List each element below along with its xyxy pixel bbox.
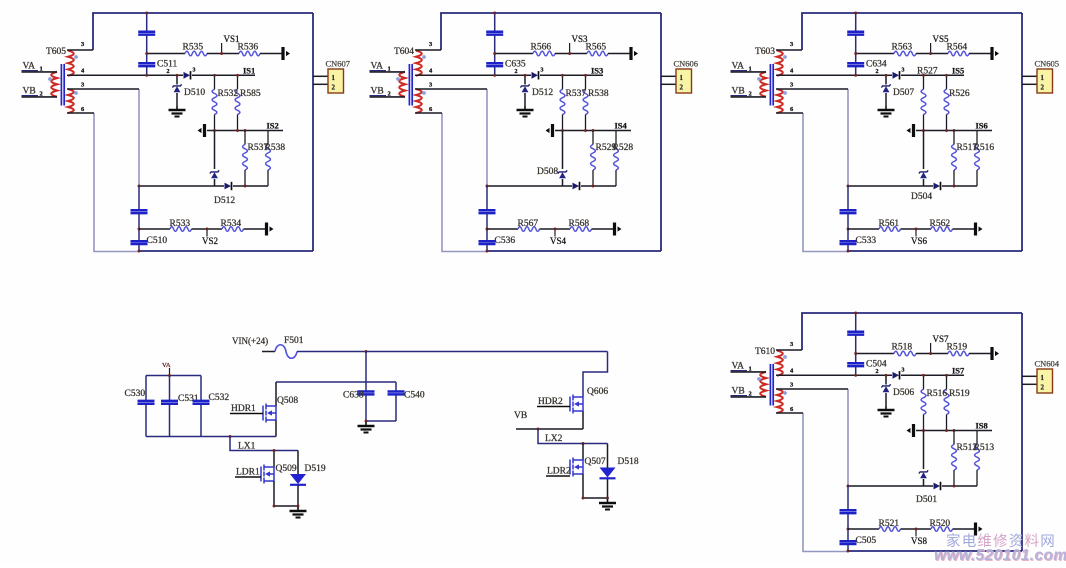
svg-text:3: 3	[902, 368, 905, 374]
wire LX1 step	[230, 437, 298, 451]
wire LX1 bus	[146, 436, 276, 438]
junction dots	[493, 12, 496, 15]
wire	[923, 179, 925, 186]
svg-text:C536: C536	[495, 236, 516, 246]
wire bottom cap column	[847, 186, 849, 210]
svg-text:D504: D504	[911, 192, 932, 202]
wire Q509 source	[273, 481, 275, 506]
wire zener branch	[923, 431, 925, 470]
wire VIN to fuse	[262, 351, 275, 353]
svg-text:2: 2	[1041, 384, 1045, 392]
svg-text:Q507: Q507	[585, 457, 606, 467]
diode D519	[297, 451, 299, 475]
wire cap to pin4 row	[494, 67, 496, 76]
wire bottom cap column	[138, 186, 140, 210]
wire to ground	[524, 93, 526, 106]
ground under D507	[885, 106, 887, 110]
wire: block1 right border	[312, 13, 314, 251]
svg-text:CN607: CN607	[326, 59, 351, 69]
svg-text:1: 1	[1041, 374, 1045, 382]
wire bottom row	[848, 528, 879, 530]
svg-text:R516: R516	[974, 143, 995, 153]
wire: block3 outer return (lavender)	[803, 113, 848, 252]
svg-text:1: 1	[332, 74, 336, 82]
resistor R561	[879, 227, 901, 232]
wire: block1 top border	[93, 13, 313, 50]
wire between caps	[494, 35, 496, 62]
wire to ground	[885, 93, 887, 106]
wire mid row	[916, 430, 992, 432]
wire	[916, 353, 948, 355]
wire cap to pin4 row	[855, 67, 857, 76]
wire bottom row	[487, 228, 518, 230]
resistor R519	[944, 389, 949, 414]
wire zener branch	[562, 131, 564, 170]
wire Q508 source	[275, 420, 277, 437]
node VS7	[930, 343, 932, 354]
wire: block3 bottom border	[848, 250, 1022, 252]
junction dots	[145, 12, 148, 15]
svg-text:LX2: LX2	[545, 434, 563, 444]
connector CN605 pin wires	[1022, 75, 1037, 77]
wire mid row	[207, 130, 283, 132]
wire	[192, 228, 223, 230]
svg-text:F501: F501	[284, 336, 304, 346]
wire cap bottoms	[366, 420, 396, 422]
wire bottom return row	[487, 185, 572, 187]
ground (bar) mid row	[203, 124, 206, 137]
resistor R566	[533, 51, 555, 56]
svg-text:www.520101.com: www.520101.com	[934, 547, 1066, 563]
wire between caps	[146, 35, 148, 62]
wire row VS-top	[856, 53, 894, 55]
diode (series on pin4 row)	[184, 72, 191, 79]
svg-text:2: 2	[1041, 84, 1045, 92]
svg-text:C511: C511	[157, 60, 177, 70]
ground (bar) row VS-top	[281, 47, 284, 60]
svg-text:1: 1	[680, 74, 684, 82]
transistor Q508	[263, 404, 276, 423]
wire cap to pin4 row	[855, 367, 857, 376]
transformer T604	[396, 51, 426, 114]
resistor R528	[614, 145, 619, 171]
wire Q507 source	[582, 474, 584, 498]
svg-text:D512: D512	[214, 196, 235, 206]
wire pin4 row	[776, 74, 892, 76]
wire	[923, 479, 925, 486]
ground under D512	[524, 106, 526, 110]
svg-text:D507: D507	[893, 88, 914, 98]
wire source/diode bottoms	[274, 505, 298, 507]
diode (series on pin4 row)	[893, 72, 900, 79]
connector CN606	[676, 69, 692, 93]
capacitor C505	[840, 540, 857, 543]
diode D508	[573, 183, 580, 190]
wire cap column top	[855, 313, 857, 331]
wire pin4 row	[415, 74, 531, 76]
capacitor C510	[131, 240, 148, 243]
wire: block3 right border	[1021, 13, 1023, 251]
wire bottom cap column	[486, 186, 488, 210]
wire pin6	[67, 112, 94, 114]
resistor R517	[952, 145, 957, 171]
capacitor (top, unlabeled)	[486, 31, 503, 34]
ground under C638/C540	[365, 422, 367, 426]
svg-text:R513: R513	[974, 443, 995, 453]
svg-text:R564: R564	[947, 43, 968, 53]
svg-text:Q509: Q509	[276, 464, 297, 474]
wire row VS-top	[147, 53, 185, 55]
svg-text:R561: R561	[879, 219, 900, 229]
svg-text:VB: VB	[514, 411, 527, 421]
node VIN/C638 junction	[365, 350, 368, 353]
wire VB to primary	[370, 96, 406, 98]
transformer T605	[48, 51, 78, 114]
wire	[207, 53, 239, 55]
wire to ground	[885, 393, 887, 406]
capacitor (top, unlabeled)	[847, 31, 864, 34]
svg-text:R528: R528	[613, 143, 634, 153]
wire	[953, 228, 975, 230]
zener D510	[172, 84, 181, 87]
capacitor (bottom, unlabeled)	[840, 209, 857, 212]
svg-text:R535: R535	[183, 43, 204, 53]
svg-text:VA: VA	[162, 362, 171, 369]
wire: secondary-2 top lead down (lavender)	[847, 89, 849, 186]
capacitor C540	[395, 382, 397, 391]
svg-text:R516: R516	[927, 389, 948, 399]
resistor R519	[948, 351, 969, 356]
svg-text:IS4: IS4	[615, 121, 628, 131]
wire pin3 to border	[776, 49, 802, 51]
wire	[847, 514, 849, 541]
wire	[592, 228, 614, 230]
connector CN607 pin wires	[313, 75, 328, 77]
ground under D510	[176, 106, 178, 110]
svg-text:R526: R526	[949, 89, 970, 99]
wire	[138, 214, 140, 241]
wire mid row	[555, 130, 631, 132]
zener D506	[881, 384, 890, 387]
svg-text:2: 2	[332, 84, 336, 92]
wire secondary2 top	[776, 388, 848, 390]
ground (bar) mid row	[912, 424, 915, 437]
svg-text:LX1: LX1	[238, 442, 256, 452]
zener D507	[881, 84, 890, 87]
fuse F501	[275, 345, 297, 359]
wire bottom row	[848, 228, 879, 230]
ground (bar) mid row	[551, 124, 554, 137]
capacitor (bottom, unlabeled)	[840, 509, 857, 512]
svg-text:CN605: CN605	[1035, 59, 1060, 69]
svg-text:3: 3	[541, 68, 544, 74]
svg-text:R534: R534	[221, 219, 242, 229]
diode D518	[607, 444, 609, 468]
resistor R533	[170, 227, 192, 232]
resistor R521	[879, 527, 901, 532]
diode D512	[225, 183, 232, 190]
resistor R529	[591, 145, 596, 171]
wire: block4 bottom border	[848, 550, 1022, 552]
wire VA to primary	[22, 71, 58, 73]
svg-text:R565: R565	[586, 43, 607, 53]
wire pin4 row	[776, 374, 892, 376]
transistor Q606	[570, 395, 583, 414]
svg-text:2: 2	[167, 69, 170, 75]
wire	[608, 53, 630, 55]
wire	[901, 528, 932, 530]
wire VB to primary	[731, 96, 767, 98]
ground (bar) bottom row	[265, 223, 268, 236]
capacitor C504	[847, 362, 864, 365]
resistor R535	[185, 51, 207, 56]
wire VA to primary	[370, 71, 406, 73]
wire: block1 bottom border	[139, 250, 313, 252]
svg-text:2: 2	[876, 69, 879, 75]
wire: block3 top border	[802, 13, 1022, 50]
wire	[562, 179, 564, 186]
node VS6	[915, 229, 917, 237]
ground under D506	[885, 406, 887, 410]
svg-text:C638: C638	[343, 391, 364, 401]
wire	[486, 245, 488, 251]
wire	[540, 228, 571, 230]
svg-text:Q606: Q606	[587, 387, 608, 397]
resistor R568	[570, 227, 592, 232]
ground under Q509/D519	[297, 507, 299, 511]
svg-text:R536: R536	[238, 43, 259, 53]
wire	[260, 53, 282, 55]
zener (at D504)	[919, 170, 928, 173]
zener D512 branch wire	[524, 75, 526, 84]
wire: block4 right border	[1021, 313, 1023, 551]
svg-text:R566: R566	[531, 43, 552, 53]
zener (at D512)	[210, 170, 219, 173]
wire bottom row	[139, 228, 170, 230]
ground under Q507/D518	[607, 499, 609, 503]
diode (series on pin4 row)	[532, 72, 539, 79]
resistor R567	[518, 227, 540, 232]
svg-text:D518: D518	[618, 457, 639, 467]
wire	[969, 353, 991, 355]
resistor R538	[266, 145, 271, 171]
svg-text:IS8: IS8	[976, 421, 988, 431]
svg-text:1: 1	[1041, 74, 1045, 82]
svg-text:C540: C540	[404, 391, 425, 401]
resistor R534	[222, 227, 244, 232]
connector CN604 pin wires	[1022, 375, 1037, 377]
resistor R516	[921, 389, 926, 414]
capacitor C638	[365, 352, 367, 391]
wire: block4 outer return (lavender)	[803, 413, 848, 552]
svg-text:CN606: CN606	[674, 59, 699, 69]
svg-text:R533: R533	[170, 219, 191, 229]
svg-text:VS8: VS8	[911, 536, 928, 546]
wire	[244, 228, 266, 230]
resistor R565	[587, 51, 608, 56]
svg-text:CN604: CN604	[1035, 359, 1060, 369]
transformer T603	[757, 51, 787, 114]
wire between caps	[855, 335, 857, 362]
wire row VS-top	[495, 53, 533, 55]
wire rail to Q606 drain	[583, 352, 608, 398]
wire cap column top	[494, 13, 496, 31]
wire	[953, 528, 975, 530]
wire pin3 to border	[67, 49, 93, 51]
wire	[847, 545, 849, 551]
wire to ground	[176, 93, 178, 106]
wire bottoms	[583, 497, 608, 499]
svg-text:VS6: VS6	[911, 236, 928, 246]
svg-text:C510: C510	[147, 236, 168, 246]
wire cap column top	[855, 13, 857, 31]
svg-text:R537: R537	[566, 89, 587, 99]
svg-text:R563: R563	[892, 43, 913, 53]
svg-text:R585: R585	[240, 89, 261, 99]
wire Q606 source corner	[582, 411, 584, 429]
zener D507 branch wire	[885, 75, 887, 84]
ground (bar) bottom row	[974, 523, 977, 536]
capacitor C533	[840, 240, 857, 243]
wire secondary2 top	[776, 88, 848, 90]
ground (bar) bottom row	[974, 223, 977, 236]
svg-text:D519: D519	[305, 464, 326, 474]
wire: block2 right border	[660, 13, 662, 251]
zener (at D508)	[558, 170, 567, 173]
node LX1	[229, 435, 232, 438]
resistor R516	[975, 145, 980, 171]
resistor R527	[921, 89, 926, 114]
svg-text:HDR2: HDR2	[538, 397, 563, 407]
resistor R585	[235, 89, 240, 114]
wire	[942, 185, 977, 187]
diode (series on pin4 row)	[893, 372, 900, 379]
junction dots	[854, 312, 857, 315]
node VS1	[221, 43, 223, 54]
wire bottom return row	[848, 185, 933, 187]
wire	[847, 245, 849, 251]
svg-text:D501: D501	[916, 495, 937, 505]
wire	[540, 74, 603, 76]
capacitor C511	[138, 62, 155, 65]
node VS3	[569, 43, 571, 54]
ground (bar) row VS-top	[629, 47, 632, 60]
svg-text:R532: R532	[218, 89, 239, 99]
wire	[138, 245, 140, 251]
wire: block2 bottom border	[487, 250, 661, 252]
wire	[214, 179, 216, 186]
svg-text:D506: D506	[893, 388, 914, 398]
zener (at D501)	[919, 470, 928, 473]
resistor R536	[239, 51, 260, 56]
svg-text:2: 2	[515, 69, 518, 75]
wire bottom cap column	[847, 486, 849, 510]
wire LX2 step	[538, 429, 608, 444]
svg-text:R519: R519	[947, 343, 968, 353]
resistor R563	[894, 51, 916, 56]
svg-text:VIN(+24): VIN(+24)	[232, 336, 268, 346]
wire row VS-top	[856, 353, 894, 355]
capacitor C531	[169, 376, 171, 401]
connector CN604	[1037, 369, 1053, 393]
wire: block1 outer return (lavender)	[94, 113, 139, 252]
wire between caps	[855, 35, 857, 62]
svg-text:IS5: IS5	[952, 66, 964, 76]
wire zener branch	[923, 131, 925, 170]
resistor R562	[931, 227, 953, 232]
zener D506 branch wire	[885, 375, 887, 384]
node VS2	[206, 229, 208, 237]
svg-text:R521: R521	[879, 519, 900, 529]
svg-text:C530: C530	[125, 389, 146, 399]
connector CN605	[1037, 69, 1053, 93]
ground (bar) bottom row	[613, 223, 616, 236]
wire bottom return row	[139, 185, 224, 187]
wire cap column top	[146, 13, 148, 31]
svg-text:IS1: IS1	[243, 66, 255, 76]
wire: block2 outer return (lavender)	[442, 113, 487, 252]
wire bottom return row	[848, 485, 933, 487]
connector CN606 pin wires	[661, 75, 676, 77]
junction dots	[854, 12, 857, 15]
svg-text:R527: R527	[917, 67, 938, 77]
wire mid row	[916, 130, 992, 132]
wire pin6	[415, 112, 442, 114]
wire cap to pin4 row	[146, 67, 148, 76]
svg-text:IS6: IS6	[976, 121, 988, 131]
node VS8	[915, 529, 917, 537]
wire pin6	[776, 412, 803, 414]
wire pin3 to border	[776, 349, 802, 351]
resistor R537	[243, 145, 248, 171]
svg-text:C634: C634	[866, 60, 887, 70]
wire	[486, 214, 488, 241]
svg-text:VS4: VS4	[550, 236, 567, 246]
ground (bar) mid row	[912, 124, 915, 137]
wire	[233, 185, 268, 187]
svg-text:LDR2: LDR2	[547, 467, 571, 477]
wire Q509 drain	[273, 451, 275, 468]
svg-text:R519: R519	[949, 389, 970, 399]
wire pin6	[776, 112, 803, 114]
wire pin3 to border	[415, 49, 441, 51]
svg-text:R562: R562	[930, 219, 951, 229]
wire	[942, 485, 977, 487]
wire VA to primary	[731, 371, 767, 373]
svg-text:IS2: IS2	[267, 121, 279, 131]
svg-text:VS2: VS2	[202, 236, 218, 246]
svg-text:C533: C533	[856, 236, 877, 246]
svg-text:C504: C504	[866, 360, 887, 370]
capacitor (top, unlabeled)	[138, 31, 155, 34]
svg-text:T604: T604	[394, 47, 414, 57]
svg-text:D510: D510	[184, 88, 205, 98]
resistor R512	[952, 445, 957, 471]
wire	[555, 53, 587, 55]
wire VA to primary	[731, 71, 767, 73]
wire: secondary-2 top lead down (lavender)	[486, 89, 488, 186]
capacitor (bottom, unlabeled)	[131, 209, 148, 212]
transistor Q509	[261, 465, 274, 484]
svg-text:T603: T603	[755, 47, 775, 57]
svg-text:T610: T610	[755, 347, 775, 357]
capacitor C532	[200, 376, 202, 401]
node LX2 junction	[582, 442, 585, 445]
svg-text:HDR1: HDR1	[231, 404, 256, 414]
wire VB row	[516, 428, 583, 430]
wire	[581, 185, 616, 187]
ground (bar) row VS-top	[990, 347, 993, 360]
